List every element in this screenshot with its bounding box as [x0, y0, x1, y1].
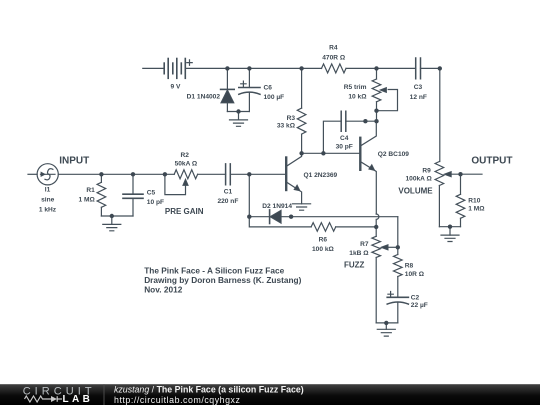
- node C1-D2: [247, 172, 251, 176]
- resistor R10 1M: [456, 174, 465, 227]
- CircuitLab logo: [23, 385, 96, 405]
- wire R3 top drop: [301, 68, 303, 108]
- capacitor C3 12nF: [416, 58, 421, 79]
- capacitor C2 22uF polarized: [387, 292, 408, 323]
- svg-text:220 nF: 220 nF: [217, 198, 238, 205]
- potentiometer R5 trim 10k: [372, 79, 397, 121]
- capacitor C4 30pF: [341, 111, 346, 131]
- svg-text:1kB Ω: 1kB Ω: [349, 250, 369, 257]
- node input-R1: [99, 172, 103, 176]
- wire input line left: [28, 173, 37, 175]
- wire C1 node to Q1 base: [230, 173, 286, 175]
- wire C4 to Q2 collector node: [346, 120, 377, 122]
- node rail-R5: [374, 66, 378, 70]
- svg-text:D2 1N914: D2 1N914: [262, 203, 292, 210]
- svg-text:C1: C1: [224, 188, 233, 195]
- resistor R1 1M: [97, 174, 106, 216]
- potentiometer R7 1kB FUZZ: [372, 236, 398, 323]
- svg-text:D1 1N4002: D1 1N4002: [187, 93, 221, 100]
- svg-text:PRE GAIN: PRE GAIN: [165, 207, 204, 216]
- svg-text:R5 trim: R5 trim: [344, 84, 367, 91]
- svg-text:http://circuitlab.com/cqyhgxz: http://circuitlab.com/cqyhgxz: [114, 395, 240, 405]
- svg-text:R10: R10: [468, 197, 480, 204]
- resistor R3 33k: [297, 108, 306, 134]
- wire R9-R10 bottom: [439, 226, 460, 228]
- node R9-R10 ground: [448, 225, 452, 229]
- capacitor C5 10pF: [123, 174, 143, 216]
- svg-text:R8: R8: [405, 262, 414, 269]
- wire R7-C2 bottom: [376, 322, 398, 324]
- svg-text:10R Ω: 10R Ω: [405, 271, 425, 278]
- svg-text:470R Ω: 470R Ω: [322, 54, 346, 61]
- svg-text:100 µF: 100 µF: [264, 94, 285, 101]
- battery V1 9V: [164, 59, 192, 79]
- node rail-D1: [225, 66, 229, 70]
- wire R5 top drop: [376, 68, 378, 79]
- svg-text:Q1 2N2369: Q1 2N2369: [304, 172, 338, 179]
- wire D1 drop: [226, 68, 228, 89]
- wire R2 to C1: [198, 173, 226, 175]
- transistor Q2 BC109: [360, 121, 376, 214]
- node C4 right: [363, 119, 367, 123]
- svg-text:9 V: 9 V: [171, 84, 181, 91]
- svg-text:R7: R7: [360, 241, 369, 248]
- node Q2 collector: [374, 119, 378, 123]
- wire hop Q2 emitter over D2 line: [376, 214, 379, 236]
- node C4 branch: [321, 151, 325, 155]
- ground (battery section): [230, 112, 248, 127]
- node D1-C6 ground: [236, 109, 240, 113]
- wire Q1 collector to Q2 base: [302, 152, 361, 154]
- transistor Q1 2N2369: [286, 153, 301, 204]
- node R6-emitter: [374, 225, 378, 229]
- node rail-R3: [299, 66, 303, 70]
- svg-text:C6: C6: [264, 85, 273, 92]
- potentiometer R2 50kA PRE GAIN: [165, 170, 198, 195]
- wire rail corner down to R9: [439, 68, 441, 161]
- capacitor C6 100uF polarized: [239, 81, 260, 111]
- svg-text:30 pF: 30 pF: [336, 144, 353, 151]
- svg-text:The Pink Face - A Silicon Fuzz: The Pink Face - A Silicon Fuzz Face: [144, 265, 284, 275]
- node rail corner: [438, 66, 442, 70]
- svg-text:Nov. 2012: Nov. 2012: [144, 285, 183, 295]
- svg-text:R2: R2: [180, 152, 189, 159]
- svg-text:LAB: LAB: [63, 394, 94, 405]
- wire R1-C5 bottom: [101, 215, 133, 217]
- node D2 anode: [289, 215, 293, 219]
- svg-text:FUZZ: FUZZ: [344, 260, 365, 269]
- svg-text:kzustang / The Pink Face (a si: kzustang / The Pink Face (a silicon Fuzz…: [114, 385, 304, 395]
- ground (output section): [441, 227, 459, 242]
- svg-text:22 µF: 22 µF: [411, 302, 428, 309]
- node input-C5: [131, 172, 135, 176]
- svg-text:R3: R3: [287, 115, 296, 122]
- diode D2 1N914: [249, 210, 397, 224]
- svg-text:33 kΩ: 33 kΩ: [277, 123, 296, 130]
- resistor R4 470R: [322, 64, 346, 73]
- svg-text:100kA Ω: 100kA Ω: [405, 176, 432, 183]
- svg-text:I1: I1: [45, 187, 51, 194]
- wire I1 to R2: [58, 173, 174, 175]
- svg-text:C3: C3: [414, 84, 423, 91]
- node R7 wiper: [396, 245, 400, 249]
- svg-text:10 pF: 10 pF: [147, 199, 164, 206]
- svg-text:100 kΩ: 100 kΩ: [312, 246, 335, 253]
- node rail-C6: [247, 66, 251, 70]
- svg-text:OUTPUT: OUTPUT: [471, 156, 512, 167]
- voltage source I1 sine: [37, 164, 58, 185]
- svg-text:Q2 BC109: Q2 BC109: [378, 151, 409, 158]
- wire R3 bottom to collector node: [301, 134, 303, 153]
- node fuzz ground: [384, 321, 388, 325]
- svg-text:10 kΩ: 10 kΩ: [348, 93, 367, 100]
- svg-text:1 MΩ: 1 MΩ: [468, 206, 485, 213]
- svg-text:50kA Ω: 50kA Ω: [175, 160, 198, 167]
- wire C4 branch up: [323, 121, 341, 153]
- wire D2 branch down: [248, 174, 250, 216]
- wire top rail battery to corner: [185, 67, 439, 69]
- node input-R2 wiper: [163, 172, 167, 176]
- svg-text:sine: sine: [41, 196, 55, 203]
- node R5 wiper: [374, 109, 378, 113]
- wire C6 drop: [248, 68, 250, 87]
- svg-text:1 kHz: 1 kHz: [39, 206, 57, 213]
- potentiometer R9 100kA VOLUME: [435, 162, 482, 227]
- svg-text:C4: C4: [340, 135, 349, 142]
- svg-text:R9: R9: [422, 167, 431, 174]
- capacitor C1 220nF: [226, 164, 231, 185]
- wire D2 line corner down to R7 wiper: [397, 217, 399, 248]
- svg-text:R6: R6: [319, 236, 328, 243]
- svg-text:R1: R1: [86, 187, 95, 194]
- ground (Q1 emitter): [293, 204, 311, 210]
- ground (fuzz section): [377, 323, 395, 336]
- svg-text:R4: R4: [329, 45, 338, 52]
- wire top rail left stub: [143, 67, 164, 69]
- diode D1 1N4002: [221, 89, 235, 111]
- svg-text:Drawing by Doron Barness (K. Z: Drawing by Doron Barness (K. Zustang): [144, 275, 301, 285]
- svg-text:12 nF: 12 nF: [410, 94, 427, 101]
- wire D1-C6 bottom joining: [227, 111, 249, 113]
- wire D2 branch to R6: [249, 217, 311, 227]
- svg-text:C5: C5: [147, 189, 156, 196]
- resistor R8 10R: [394, 247, 403, 297]
- svg-text:1 MΩ: 1 MΩ: [79, 197, 96, 204]
- node R1-C5 ground: [110, 214, 114, 218]
- resistor R6 100k: [311, 223, 336, 232]
- svg-text:C2: C2: [411, 295, 420, 302]
- node D2 branch: [247, 215, 251, 219]
- svg-text:VOLUME: VOLUME: [398, 187, 433, 196]
- svg-text:INPUT: INPUT: [59, 155, 89, 166]
- node R9 wiper: [458, 172, 462, 176]
- wire R6 to Q2 emitter line: [336, 226, 377, 228]
- ground (input section): [103, 216, 121, 231]
- node Q1 collector: [299, 151, 303, 155]
